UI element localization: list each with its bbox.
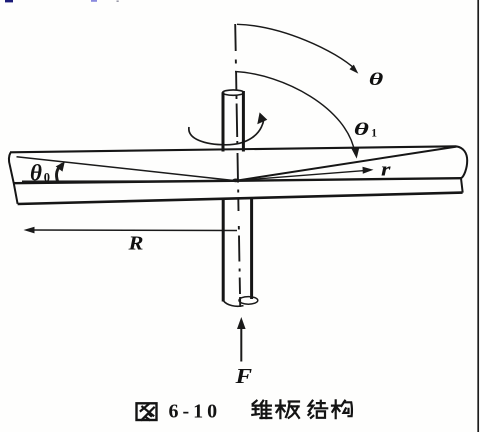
svg-text:R: R	[127, 232, 143, 255]
svg-text:θ: θ	[30, 160, 42, 186]
svg-text:6-10: 6-10	[169, 401, 222, 423]
svg-text:r: r	[381, 159, 391, 180]
svg-text:θ: θ	[354, 119, 370, 139]
svg-text:0: 0	[44, 171, 50, 185]
svg-text:θ: θ	[369, 70, 383, 90]
svg-text:1: 1	[371, 127, 377, 139]
svg-text:F: F	[234, 365, 252, 388]
